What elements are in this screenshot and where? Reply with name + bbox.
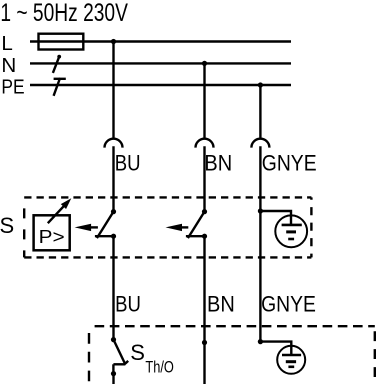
svg-text:N: N xyxy=(1,54,16,77)
fuse F1 xyxy=(39,34,84,50)
svg-text:P>: P> xyxy=(39,226,65,247)
wire BU drop from L xyxy=(112,42,114,140)
connector X3 socket (GNYE) xyxy=(251,139,269,148)
svg-text:BN: BN xyxy=(204,151,232,176)
wire BU through S box down xyxy=(112,236,114,339)
wire N xyxy=(30,62,291,64)
svg-text:S: S xyxy=(0,213,14,238)
earth symbol E2 (noiseless earth) xyxy=(277,346,305,374)
contact S_Th/O (thermal, BU) xyxy=(111,337,128,384)
connector X1 socket (BU) xyxy=(105,139,123,148)
connector X2 socket (BN) xyxy=(196,139,214,148)
svg-text:GNYE: GNYE xyxy=(262,151,317,176)
svg-text:PE: PE xyxy=(1,76,24,99)
N conductor mark (slash with dot) xyxy=(53,55,61,73)
svg-text:BU: BU xyxy=(115,292,141,317)
connector X1 pin wire (BU) xyxy=(112,146,114,211)
wire to earth 2 xyxy=(260,342,291,356)
node: BN terminal junction xyxy=(202,340,207,345)
PE conductor mark (slash with bar) xyxy=(54,78,66,96)
svg-text:BN: BN xyxy=(207,292,235,317)
connector X2 pin wire (BN) xyxy=(203,146,205,211)
wire L xyxy=(30,40,291,42)
wire BN drop from N xyxy=(203,63,205,139)
svg-text:BU: BU xyxy=(115,151,141,176)
connector X3 pin wire (GNYE) xyxy=(259,146,261,211)
enclosure: pump terminal box (dashed, open bottom) xyxy=(89,326,375,384)
contact S2 (BN, NO) xyxy=(186,209,207,239)
svg-text:Th/O: Th/O xyxy=(145,358,174,377)
node: GNYE junction to earth 2 xyxy=(258,339,263,344)
node: junction L/BU xyxy=(111,39,116,44)
svg-text:L: L xyxy=(1,32,12,55)
adjustability arrow on P> xyxy=(48,198,72,223)
contact S1 (BU, NO) xyxy=(95,209,116,239)
label S_Th/O xyxy=(130,340,174,377)
svg-text:S: S xyxy=(130,340,145,365)
wire GNYE through S box down xyxy=(259,211,261,342)
svg-text:GNYE: GNYE xyxy=(261,292,316,317)
svg-text:1 ~ 50Hz 230V: 1 ~ 50Hz 230V xyxy=(0,0,128,27)
actuation arrow for contact S1 xyxy=(75,224,98,231)
pressure switch P> box xyxy=(34,215,70,250)
node: GNYE junction to earth 1 xyxy=(258,208,263,213)
wire to earth 1 xyxy=(260,211,291,225)
node: junction N/BN xyxy=(202,61,207,66)
node: junction PE/GNYE xyxy=(258,82,263,87)
enclosure S (dashed box) xyxy=(24,197,311,257)
wire PE xyxy=(30,84,291,86)
earth symbol E1 (noiseless earth) xyxy=(275,215,307,247)
wire BN through S box down xyxy=(203,236,205,384)
wire GNYE drop from PE xyxy=(259,85,261,139)
actuation arrow for contact S2 xyxy=(166,224,189,231)
